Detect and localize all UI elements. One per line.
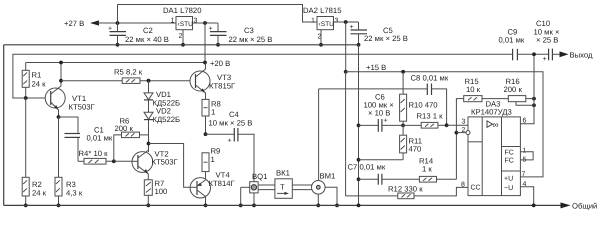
svg-text:C3: C3: [244, 26, 254, 35]
svg-text:DA2 L7815: DA2 L7815: [303, 6, 341, 15]
svg-text:R1: R1: [32, 71, 42, 80]
svg-text:100: 100: [155, 187, 168, 196]
resistor R4* 10к: [78, 149, 132, 164]
wire: bottom common rail: [4, 204, 561, 206]
node: +20V takeoff: [203, 21, 207, 25]
capacitor C10 10мк x 25В: [534, 19, 594, 63]
diode VD2 КД522Б: [144, 100, 180, 152]
capacitor C2 22мк x 40В: [108, 23, 169, 47]
wire: to VT4 base: [149, 144, 191, 188]
resistor R11 470: [357, 125, 422, 161]
svg-text:R5 8,2 к: R5 8,2 к: [114, 68, 143, 77]
svg-text:‹STU: ‹STU: [319, 21, 335, 28]
wire: +20V rail: [26, 62, 205, 64]
resistor R16 200к (trimmer tap): [504, 77, 536, 107]
svg-text:КД522Б: КД522Б: [153, 115, 181, 124]
wire: DA1 pin2 to ground rail: [182, 30, 184, 45]
svg-text:1: 1: [171, 18, 175, 25]
svg-text:C7 0,01 мк: C7 0,01 мк: [348, 163, 386, 172]
resistor R7 100: [144, 179, 167, 207]
svg-text:+: +: [209, 26, 213, 33]
svg-text:+: +: [228, 138, 232, 145]
resistor R5 8,2к: [61, 68, 190, 84]
svg-text:R13 1 к: R13 1 к: [417, 112, 444, 121]
svg-text:1 к: 1 к: [422, 165, 432, 174]
wire: +20V drop to rail: [204, 23, 206, 63]
node: +27V input arrow: [90, 20, 99, 25]
svg-text:+: +: [350, 24, 354, 31]
svg-text:0,01 мк: 0,01 мк: [499, 36, 525, 45]
svg-text:+20 В: +20 В: [210, 59, 230, 68]
resistor R13 1к: [403, 112, 447, 129]
svg-text:4,3 к: 4,3 к: [66, 189, 83, 198]
svg-text:BM1: BM1: [320, 172, 336, 181]
resistor R2 24к: [22, 98, 46, 207]
svg-text:R4* 10 к: R4* 10 к: [79, 149, 109, 158]
svg-text:C2: C2: [143, 26, 153, 35]
resistor R14 1к: [419, 133, 456, 182]
svg-text:C8 0,01 мк: C8 0,01 мк: [411, 74, 449, 83]
svg-text:+27 В: +27 В: [64, 19, 84, 28]
capacitor C6 100мк x 10В: [357, 93, 405, 132]
transistor VT1 КТ503Г: [45, 61, 95, 119]
svg-text:‹STU: ‹STU: [178, 21, 194, 28]
svg-text:FC: FC: [505, 158, 514, 165]
resistor R6 200к: [114, 117, 149, 162]
svg-text:24 к: 24 к: [32, 80, 47, 89]
svg-text:+15 В: +15 В: [366, 63, 386, 72]
wire: ground rail top: [4, 44, 359, 46]
svg-text:× 10 В: × 10 В: [368, 109, 390, 118]
resistor R10 470: [400, 70, 438, 126]
capacitor C9 0,01мк: [499, 28, 549, 61]
svg-text:10 к: 10 к: [466, 85, 481, 94]
svg-text:+: +: [384, 118, 388, 125]
wire: DA3 output pin6 riser: [520, 54, 534, 123]
svg-text:R10 470: R10 470: [409, 101, 438, 110]
svg-text:0,01 мк: 0,01 мк: [87, 134, 113, 143]
capacitor C5 22мк x 25В: [350, 22, 408, 47]
node: VD1 tap: [147, 79, 151, 83]
resistor R15 10к: [456, 77, 508, 133]
voltage regulator DA1 L7820: [163, 6, 201, 47]
svg-text:2: 2: [179, 33, 183, 40]
thermal sensor BK1: [275, 169, 292, 199]
motor BM1: [312, 89, 339, 207]
svg-text:КР1407УД3: КР1407УД3: [471, 108, 512, 117]
svg-text:24 к: 24 к: [32, 189, 47, 198]
node: junction C2/top feed: [116, 21, 120, 25]
svg-text:22 мк × 40 В: 22 мк × 40 В: [125, 35, 169, 44]
svg-text:FC: FC: [505, 150, 514, 157]
svg-text:1: 1: [211, 155, 215, 164]
svg-text:T: T: [280, 183, 285, 192]
wire: +27V input to DA1 pin1: [98, 22, 176, 24]
transistor VT2 КТ503Г: [132, 150, 179, 180]
resistor R1 24к: [22, 63, 46, 100]
svg-text:8: 8: [461, 182, 465, 189]
svg-text:Общий: Общий: [572, 202, 597, 211]
wire: double link BK1-BM1: [292, 184, 312, 186]
capacitor C3 22мк x 25В: [209, 23, 273, 47]
svg-text:1: 1: [523, 148, 527, 155]
svg-text:DA1 L7820: DA1 L7820: [163, 6, 201, 15]
transistor VT3 КТ815Г: [190, 63, 236, 100]
svg-text:1: 1: [211, 108, 215, 117]
svg-text:КТ503Г: КТ503Г: [152, 158, 179, 167]
svg-text:Выход: Выход: [570, 51, 594, 60]
svg-text:10 мк × 25 В: 10 мк × 25 В: [209, 119, 253, 128]
wire: top +27V feed to DA2: [118, 5, 318, 23]
wire: feedback line from output to VT1 base: [13, 54, 512, 98]
svg-text:+: +: [108, 26, 112, 33]
diode VD1 КД522Б: [144, 81, 180, 108]
svg-text:R12 330 к: R12 330 к: [388, 185, 423, 194]
capacitor C4 10мк x 25В: [206, 110, 255, 182]
svg-text:КТ815Г: КТ815Г: [209, 82, 236, 91]
wire: DA2 output to C5: [334, 21, 359, 23]
node: R6 join on VT2 base: [112, 159, 116, 163]
wire: R12 riser from +15V: [345, 72, 347, 196]
node: R5 tap on VT1 collector: [59, 79, 63, 83]
node: VT2 collector branch to VT4 base: [147, 142, 151, 146]
svg-text:∞: ∞: [493, 119, 499, 129]
wire: analog ground column: [358, 45, 360, 206]
wire: DA1 output to C3: [193, 22, 219, 24]
capacitor C8 0,01мк: [319, 74, 449, 126]
svg-text:BQ1: BQ1: [252, 172, 267, 181]
wire: ground left wrap: [3, 45, 5, 206]
svg-text:22 мк × 25 В: 22 мк × 25 В: [229, 35, 273, 44]
resistor R12 330к: [346, 185, 468, 199]
svg-text:1: 1: [311, 18, 315, 25]
node: output node A: [204, 132, 208, 136]
svg-text:22 мк × 25 В: 22 мк × 25 В: [364, 34, 408, 43]
op-amp DA3 КР1407УД3: [461, 100, 527, 196]
wire: FC pins 1-5 jumper: [520, 152, 533, 160]
voltage regulator DA2 L7815: [303, 6, 341, 47]
wire: double link BQ1-BK1: [258, 184, 275, 186]
svg-text:CC: CC: [471, 185, 481, 192]
svg-text:3: 3: [462, 119, 466, 126]
resistor R8 1: [202, 99, 221, 134]
svg-text:+U: +U: [504, 176, 513, 183]
svg-text:+: +: [543, 56, 547, 63]
wire: +15V drop: [345, 22, 347, 72]
svg-text:470: 470: [409, 145, 422, 154]
svg-text:3: 3: [335, 18, 339, 25]
svg-text:7: 7: [522, 171, 526, 178]
resistor R3 4,3к: [55, 177, 83, 207]
svg-text:× 25 В: × 25 В: [536, 36, 558, 45]
svg-text:−U: −U: [504, 185, 513, 192]
sensor BQ1: [239, 172, 268, 207]
transistor VT4 КТ814Г: [190, 171, 235, 208]
wire: VT1 emitter to R3: [58, 117, 60, 177]
capacitor C1 0,01мк: [59, 117, 113, 161]
svg-text:200 к: 200 к: [504, 85, 523, 94]
svg-text:КТ503Г: КТ503Г: [69, 103, 96, 112]
node: +15V takeoff: [344, 20, 348, 24]
capacitor C7 0,01мк: [348, 163, 420, 185]
wire: pin4 to common: [520, 187, 533, 206]
node: pin3 junction: [445, 123, 449, 127]
resistor R9 1: [202, 147, 220, 181]
svg-text:КТ814Г: КТ814Г: [209, 179, 236, 188]
node: pin2 junction: [455, 131, 459, 135]
wire: DA2 pin2 to ground rail: [320, 30, 322, 45]
svg-text:ВК1: ВК1: [276, 169, 290, 178]
